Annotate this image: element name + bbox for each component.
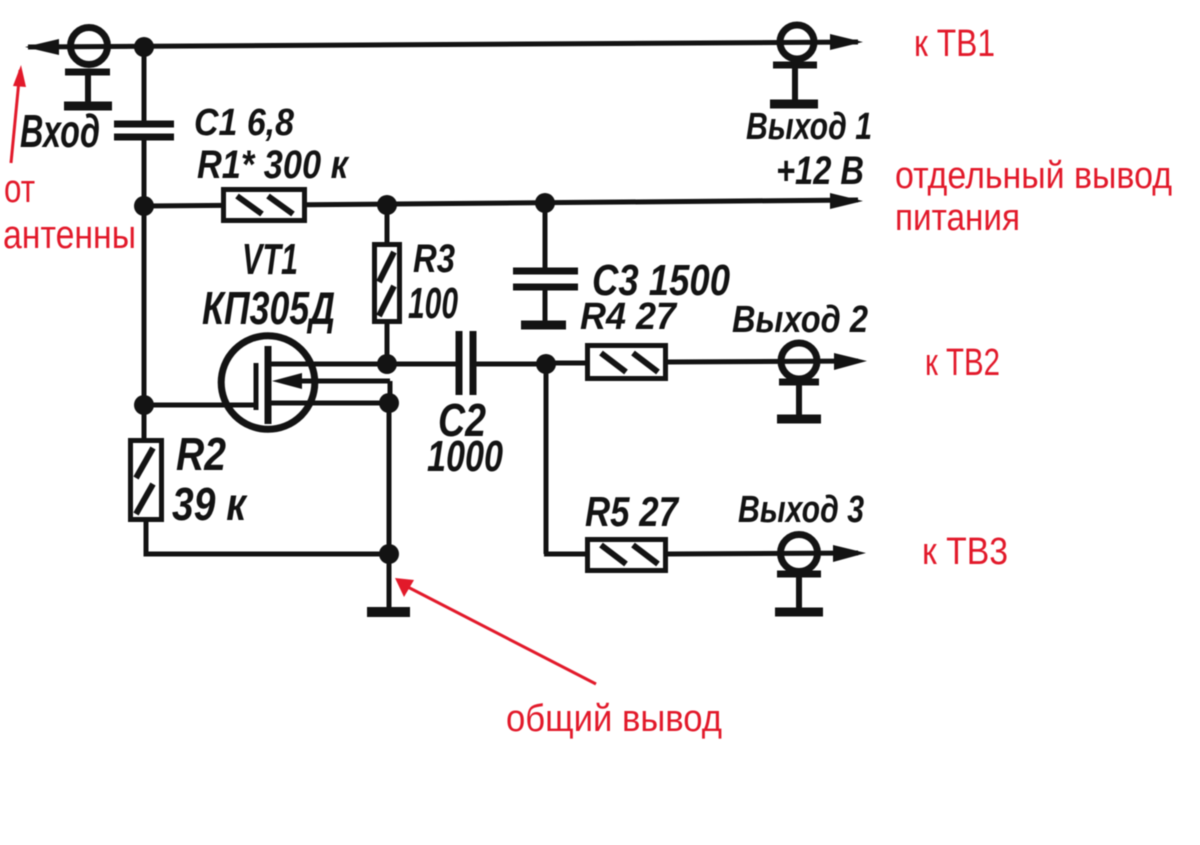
wire gate lead <box>144 403 256 408</box>
node ground junction <box>379 544 399 564</box>
wire R2 bottom <box>146 522 389 554</box>
svg-text:C1 6,8: C1 6,8 <box>194 102 295 144</box>
svg-text:к ТВ1: к ТВ1 <box>914 23 995 65</box>
wire C3 stem top <box>543 203 548 268</box>
svg-text:1000: 1000 <box>427 432 503 481</box>
svg-text:общий вывод: общий вывод <box>506 698 722 740</box>
svg-text:R1* 300 к: R1* 300 к <box>197 143 349 187</box>
svg-text:R5 27: R5 27 <box>585 488 679 535</box>
svg-text:от: от <box>4 167 35 211</box>
resistor R5 <box>588 540 666 571</box>
svg-text:100: 100 <box>408 279 458 328</box>
node C3 top junction <box>535 193 555 213</box>
arrow to TV2 <box>834 353 867 370</box>
wire source lead <box>268 401 389 406</box>
arrow +12V right <box>830 193 863 209</box>
connector X1 Вход <box>64 28 112 107</box>
svg-text:антенны: антенны <box>3 213 136 257</box>
arrow to TV3 <box>833 545 866 562</box>
svg-text:КП305Д: КП305Д <box>202 282 335 334</box>
red arrow from antenna <box>11 65 26 163</box>
wire C3 stem bottom <box>543 287 548 321</box>
wire R5 to connector 3 <box>668 553 858 554</box>
wire R4 node down to R5 row <box>544 364 549 554</box>
resistor R3 <box>375 245 400 322</box>
svg-text:VT1: VT1 <box>242 235 298 284</box>
capacitor C1 <box>114 124 174 137</box>
ground symbol common <box>367 554 410 612</box>
wire node to R4 <box>546 361 585 366</box>
wire junction A to C1 <box>142 47 147 121</box>
svg-text:Выход 2: Выход 2 <box>732 299 868 341</box>
resistor R2 <box>131 441 162 520</box>
arrow to antenna left <box>25 39 59 55</box>
svg-text:Выход 3: Выход 3 <box>738 489 864 531</box>
node gate junction <box>134 395 154 415</box>
capacitor C2 <box>459 331 473 395</box>
wire R3 top <box>385 205 390 242</box>
connector X0 Выход 1 <box>770 25 818 104</box>
svg-text:к ТВ2: к ТВ2 <box>925 342 1000 384</box>
node A top junction <box>134 37 154 57</box>
wire drain lead <box>268 362 456 367</box>
wire antenna top rail <box>28 42 858 47</box>
node B rail junction <box>134 196 154 216</box>
transistor VT1 <box>221 336 315 430</box>
connector X2 Выход 2 <box>777 343 821 419</box>
svg-text:к ТВ3: к ТВ3 <box>922 531 1008 573</box>
svg-text:Выход 1: Выход 1 <box>746 106 872 148</box>
node C2/R4 junction <box>536 354 556 374</box>
svg-text:R3: R3 <box>413 237 455 281</box>
wire R4 to connector 2 <box>668 361 858 362</box>
wire C2 to R4 node <box>473 362 546 367</box>
svg-text:R2: R2 <box>176 428 226 480</box>
red arrow to common terminal <box>395 578 596 684</box>
connector X3 Выход 3 <box>775 535 823 613</box>
wire R5 row left <box>544 552 585 557</box>
svg-text:R4 27: R4 27 <box>580 296 678 338</box>
svg-text:отдельный вывод: отдельный вывод <box>895 155 1172 197</box>
svg-text:Вход: Вход <box>20 105 100 157</box>
node drain junction <box>377 354 397 374</box>
wire substrate lead with arrow <box>272 373 390 403</box>
wire +12V rail <box>144 203 223 209</box>
wire source down column <box>387 403 392 554</box>
wire C1 to gate node column <box>142 137 147 438</box>
arrow to TV1 <box>830 34 863 50</box>
node source junction <box>379 393 399 413</box>
capacitor C3 <box>513 271 578 287</box>
resistor R4 <box>588 346 666 379</box>
svg-text:+12 В: +12 В <box>776 149 864 193</box>
node R3 top junction <box>377 195 397 215</box>
svg-text:питания: питания <box>895 197 1020 239</box>
wire R3 bottom to drain <box>385 324 390 364</box>
resistor R1 <box>224 190 305 221</box>
svg-text:39 к: 39 к <box>172 478 248 530</box>
ground chassis below C3 <box>521 321 566 330</box>
